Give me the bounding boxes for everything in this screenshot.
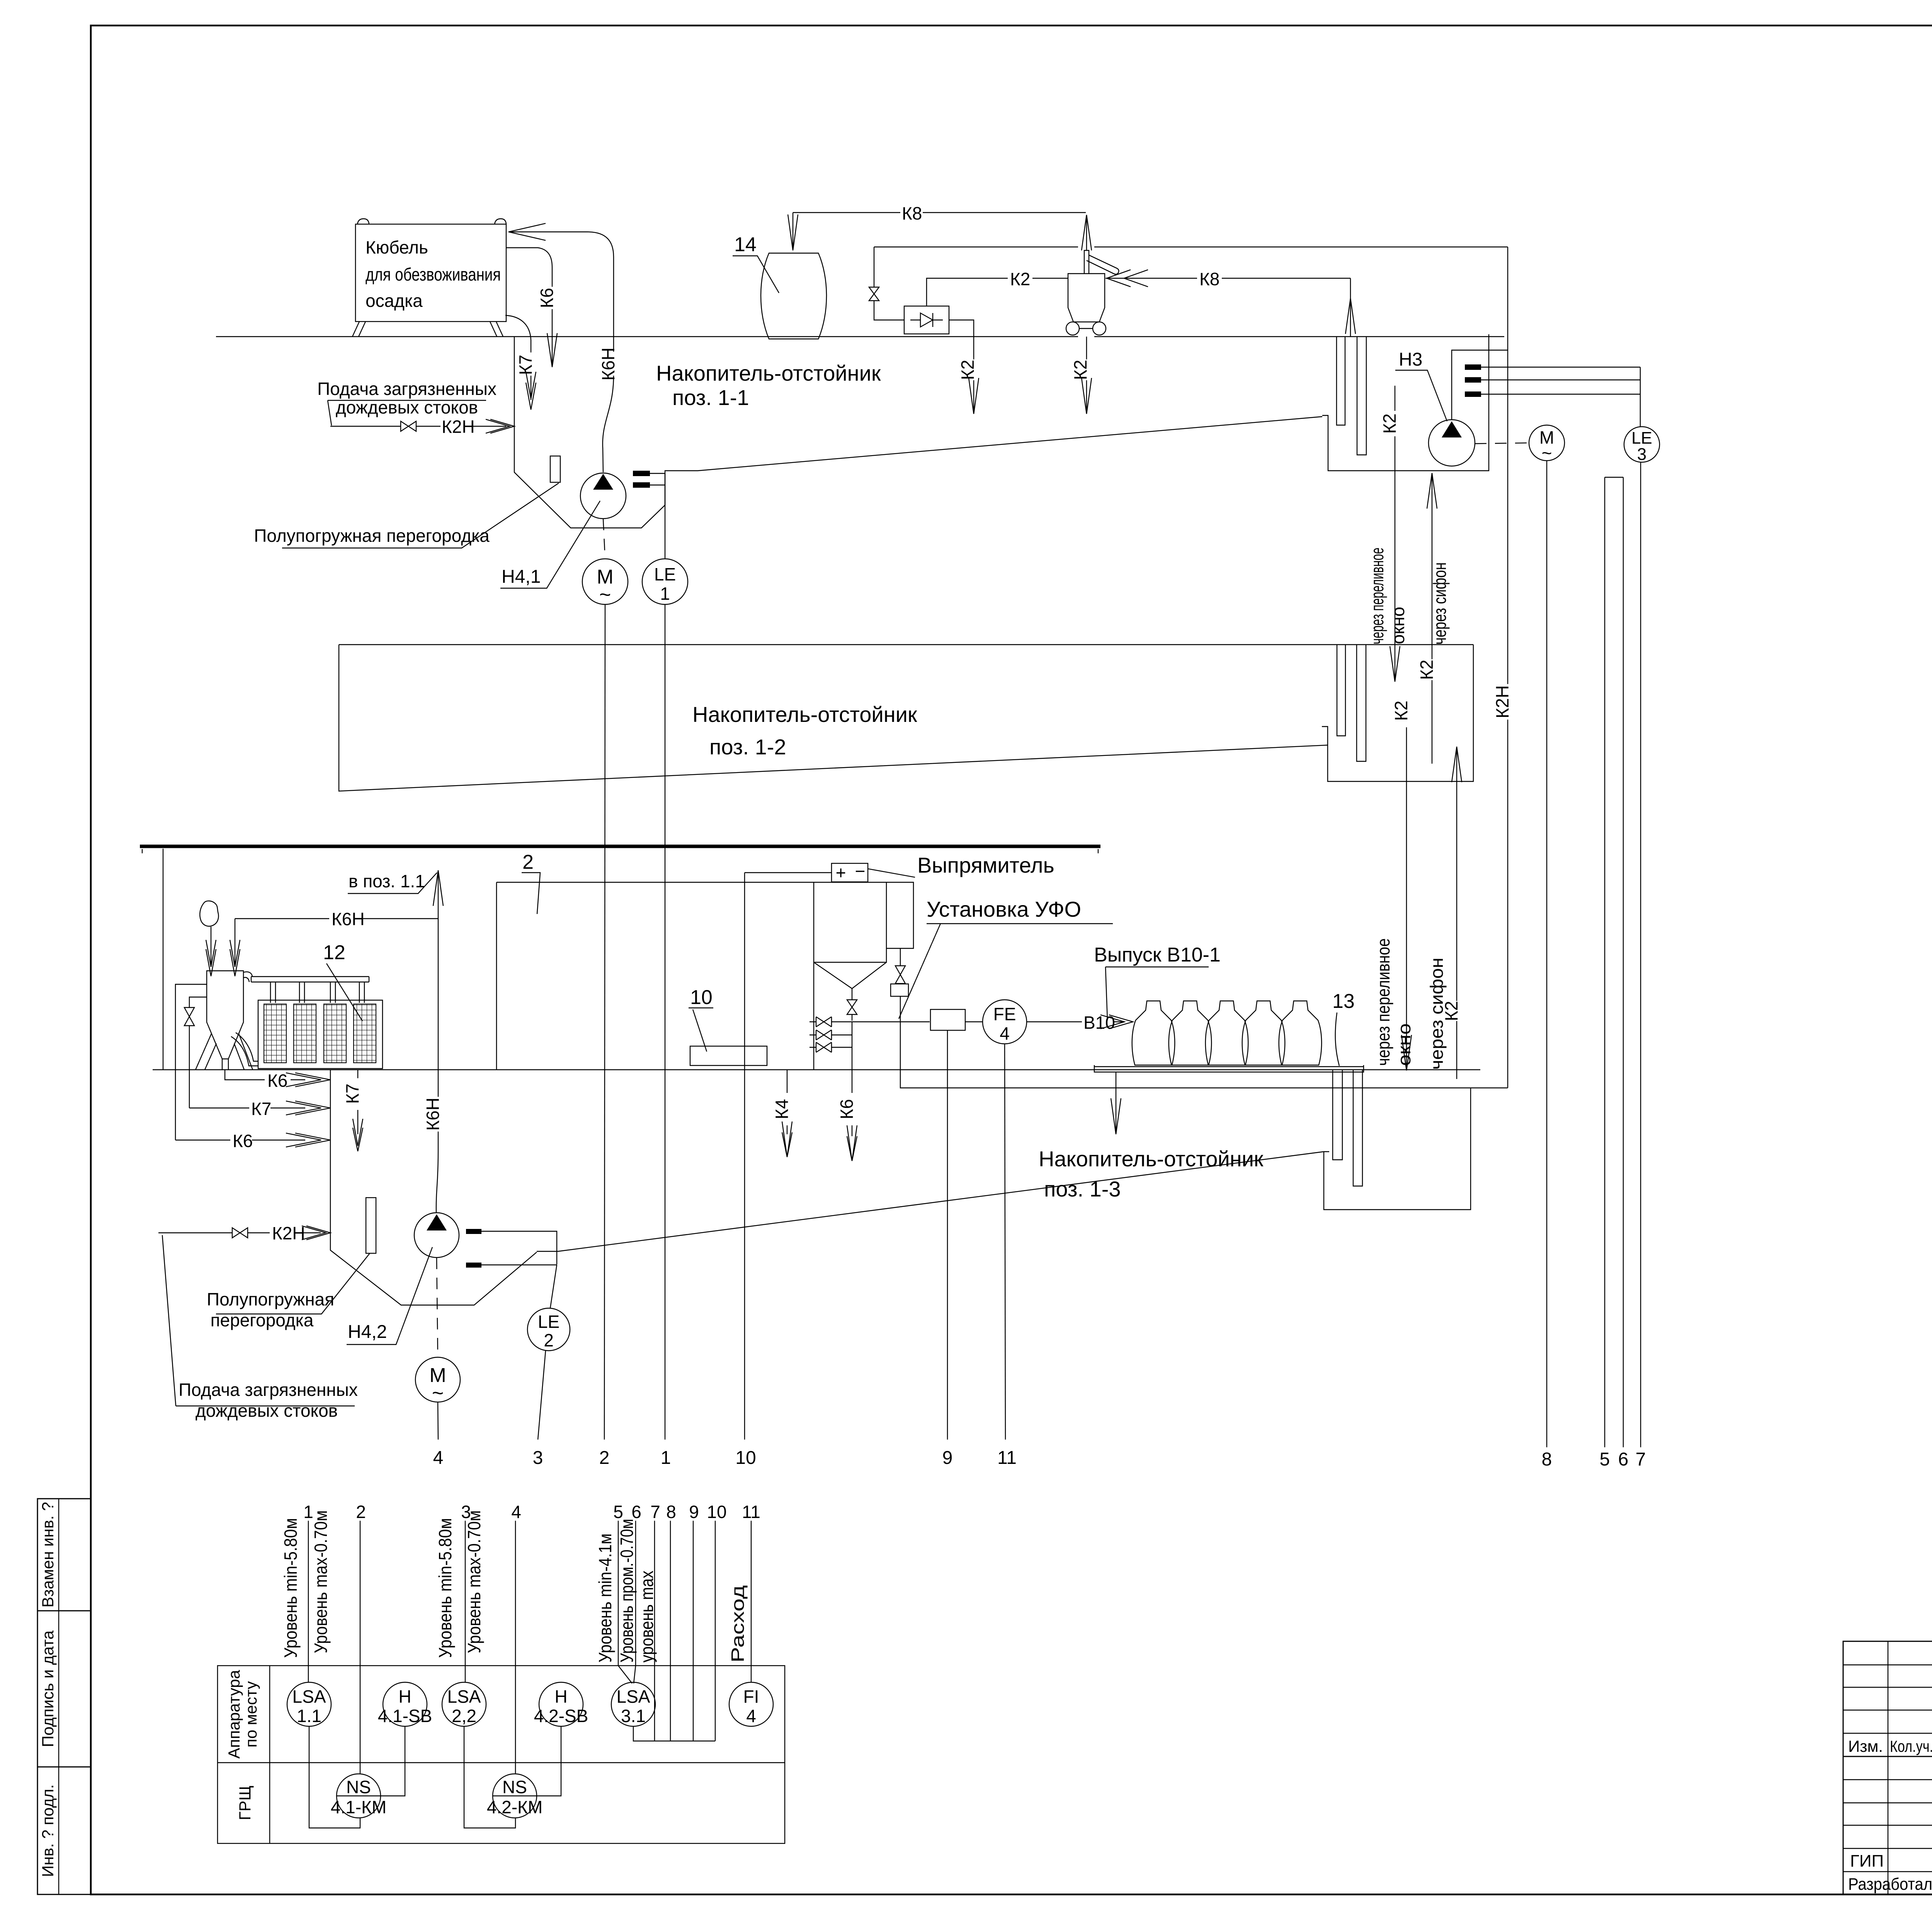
svg-text:К2: К2	[1070, 360, 1090, 380]
pointer arrow to tank 1-3	[1111, 1072, 1121, 1134]
svg-text:К8: К8	[902, 203, 922, 223]
svg-text:7: 7	[650, 1502, 660, 1522]
K2 drop line 2 (below trolley)	[1070, 337, 1092, 414]
roof slab (thick)	[140, 845, 1100, 848]
svg-text:3: 3	[1637, 445, 1646, 464]
svg-text:6: 6	[1618, 1449, 1629, 1470]
K7 down arrowheads	[526, 372, 536, 410]
riser from trolley mast with up arrow	[1086, 215, 1087, 250]
tank 1-1 outline (left wall, sump, sloped floor)	[514, 337, 1322, 528]
label H4,2	[347, 1247, 432, 1344]
instrument LSA 1.1	[287, 1682, 331, 1726]
svg-text:Полупогружная перегородка: Полупогружная перегородка	[254, 526, 490, 546]
chamber 2 walls	[497, 882, 886, 1070]
svg-text:К2Н: К2Н	[1492, 685, 1512, 718]
svg-text:−: −	[855, 861, 866, 881]
svg-text:Уровень mах-0.70м: Уровень mах-0.70м	[464, 1510, 484, 1653]
svg-text:12: 12	[323, 941, 345, 964]
stub line 3 into LSA 2,2	[465, 1521, 466, 1682]
pipe from hopper bottom to frame	[231, 1033, 258, 1066]
label outfall B10-1	[1094, 944, 1221, 1020]
sack symbol above hopper	[200, 901, 218, 926]
svg-text:1: 1	[661, 1448, 671, 1468]
stub lines 5,6 converge into LSA 3.1	[618, 1521, 636, 1683]
instrument LSA 2,2	[442, 1682, 486, 1726]
svg-text:4: 4	[746, 1706, 756, 1726]
lower overflow K2 line (tank 1-2 to tank 1-3)	[1391, 701, 1412, 1070]
svg-text:К6Н: К6Н	[332, 909, 365, 929]
label: supply of polluted storm water (upper)	[317, 379, 497, 425]
svg-text:Накопитель-отстойник: Накопитель-отстойник	[692, 702, 917, 727]
building left wall	[163, 849, 163, 1070]
svg-text:Аппаратура: Аппаратура	[225, 1670, 243, 1759]
signal line 11	[1005, 1044, 1005, 1440]
posts	[270, 982, 364, 1003]
svg-text:Накопитель-отстойник: Накопитель-отстойник	[1039, 1147, 1264, 1171]
discharge bars of pump H4,1	[633, 471, 665, 559]
tank 1-2 outline	[339, 645, 1473, 791]
svg-text:К7: К7	[342, 1084, 362, 1104]
signal line 8 (M of H3 down)	[1546, 461, 1547, 1447]
svg-text:окно: окно	[1388, 607, 1408, 644]
label: to pos. 1.1 with riser arrow	[348, 870, 443, 1070]
upper overflow K2 line (tank H3 to tank 1-2)	[1379, 386, 1400, 682]
stub line 2 into NS 4.1-KM	[360, 1521, 361, 1774]
arrowhead into Kubel	[509, 223, 546, 240]
electrocoagulator unit 12	[231, 972, 383, 1069]
title block left-table verticals	[1888, 1641, 1888, 1894]
svg-text:Инв. ? подл.: Инв. ? подл.	[39, 1784, 57, 1877]
svg-text:Кюбель: Кюбель	[366, 237, 428, 257]
signal line 3 (LE2 down)	[538, 1351, 546, 1440]
element 14 (barrel)	[733, 233, 827, 339]
K6 drop line	[837, 1070, 857, 1161]
K4 drop line	[772, 1070, 792, 1157]
busbar	[251, 977, 369, 982]
level sensor LE3	[1624, 427, 1660, 464]
svg-text:2: 2	[356, 1502, 366, 1522]
svg-text:10: 10	[707, 1502, 726, 1522]
signal line 1 (LE1 down to row)	[665, 604, 665, 1440]
arrow from sack into hopper	[206, 927, 216, 976]
hanging baffle pipes	[1337, 337, 1345, 425]
svg-text:ГИП: ГИП	[1850, 1852, 1884, 1870]
ground line of tank 1-1 row	[216, 336, 1504, 337]
svg-text:Подача загрязненных: Подача загрязненных	[179, 1380, 358, 1400]
pipe from hopper to busbar	[243, 972, 252, 982]
instrument H 4.2-SB	[534, 1682, 588, 1726]
valve on K7 feed	[184, 1008, 194, 1026]
wire H4.1-SB to NS4.1	[381, 1726, 405, 1796]
stub line 11 into FI 4	[751, 1521, 752, 1682]
svg-text:поз. 1-3: поз. 1-3	[1044, 1177, 1121, 1201]
svg-text:Установка УФО: Установка УФО	[927, 897, 1081, 921]
semi-submerged partition (lower tank)	[366, 1198, 376, 1253]
title block	[1843, 1641, 1932, 1895]
pump H4,2	[414, 1213, 459, 1258]
discharge bars of pump H4,2	[466, 1229, 557, 1268]
stub lines 7,8,9,10 to connector	[655, 1521, 715, 1741]
rectifier box	[832, 861, 915, 883]
svg-text:дождевых стоков: дождевых стоков	[196, 1401, 338, 1421]
svg-text:К2: К2	[1010, 269, 1030, 289]
svg-text:2: 2	[599, 1448, 610, 1468]
bags on tray (element 13)	[1094, 1001, 1364, 1072]
svg-text:К2: К2	[1417, 660, 1437, 680]
signal line 4 (M of H4,2 down)	[438, 1402, 438, 1440]
level sensor LE1	[642, 559, 688, 604]
motor M of pump H4,2	[415, 1258, 460, 1404]
svg-text:уровень mах: уровень mах	[637, 1571, 657, 1663]
hanging baffles of tank 1-3	[1333, 1070, 1342, 1160]
svg-text:4.1-SВ: 4.1-SВ	[378, 1706, 432, 1726]
stub line 4 into NS 4.2-KM	[515, 1521, 516, 1774]
hopper (reagent tank)	[196, 971, 253, 1070]
label: semi-submerged partition (lower)	[207, 1253, 370, 1330]
svg-text:4.1-КМ: 4.1-КМ	[331, 1797, 386, 1817]
signal line 2 (M of H4,1 down to row)	[604, 604, 605, 1440]
svg-text:14: 14	[734, 233, 757, 256]
diode box (non-return device)	[904, 306, 949, 334]
rotated signal descriptions	[281, 1510, 748, 1663]
svg-text:поз. 1-2: поз. 1-2	[709, 735, 786, 759]
valve on vertical at 2262	[869, 247, 904, 320]
svg-text:4: 4	[511, 1502, 521, 1522]
svg-text:в поз. 1.1: в поз. 1.1	[349, 871, 425, 891]
svg-text:осадка: осадка	[366, 291, 423, 311]
svg-text:К2: К2	[957, 360, 978, 380]
K6H riser below floor down to pump H4,2	[423, 1070, 443, 1212]
svg-text:~: ~	[599, 584, 611, 606]
roof slab end ticks	[142, 849, 1098, 853]
svg-text:9: 9	[689, 1502, 699, 1522]
motor M of pump H3	[1475, 425, 1565, 463]
svg-text:Накопитель-отстойник: Накопитель-отстойник	[656, 361, 881, 385]
UFO unit (UV disinfection)	[814, 882, 1508, 1088]
K7 drop line below floor	[342, 1070, 363, 1151]
pump H4,1	[580, 473, 626, 519]
upper siphon K2 line (tank 1-2 up to tank H3)	[1417, 473, 1437, 764]
svg-text:Уровень mах-0.70м: Уровень mах-0.70м	[311, 1510, 331, 1653]
svg-text:Взамен инв. ?: Взамен инв. ?	[39, 1502, 57, 1607]
svg-text:4: 4	[433, 1448, 444, 1468]
svg-text:К6Н: К6Н	[598, 347, 618, 381]
svg-text:К6: К6	[267, 1070, 287, 1091]
svg-text:~: ~	[1542, 443, 1552, 463]
svg-text:LE: LE	[654, 564, 676, 584]
tank 1-2 top line	[339, 644, 1473, 645]
starter NS 4.2-KM	[487, 1774, 543, 1818]
line number labels row 1	[433, 1448, 1646, 1470]
svg-text:4.2-КМ: 4.2-КМ	[487, 1797, 543, 1817]
hopper feed pipes at left	[175, 984, 207, 1140]
svg-text:11: 11	[742, 1502, 760, 1522]
connector from LSA 3.1 to lines 7-10	[633, 1726, 715, 1741]
svg-text:Уровень min-5.80м: Уровень min-5.80м	[281, 1518, 301, 1658]
svg-text:LSA: LSA	[447, 1687, 481, 1707]
svg-text:Кол.уч.: Кол.уч.	[1890, 1737, 1932, 1755]
svg-text:1.1: 1.1	[297, 1706, 321, 1726]
starter NS 4.1-KM	[331, 1774, 386, 1818]
svg-text:7: 7	[1636, 1449, 1646, 1470]
svg-text:К6: К6	[837, 1099, 857, 1119]
svg-text:13: 13	[1332, 990, 1355, 1013]
lower siphon K2 line (tank 1-3 up to tank 1-2)	[1441, 747, 1462, 1079]
tank 1-2 hanging baffles	[1337, 645, 1366, 761]
inlet K2H valve and arrow (lower tank)	[158, 1223, 330, 1243]
svg-text:4: 4	[1000, 1023, 1010, 1043]
svg-text:для обезвоживания: для обезвоживания	[366, 264, 501, 284]
svg-text:К6: К6	[537, 288, 557, 308]
flow element FE4	[965, 1000, 1027, 1044]
svg-text:через переливное: через переливное	[1367, 548, 1387, 644]
svg-text:К2: К2	[1391, 701, 1411, 721]
pipe K7 from Kubel bottom with down arrow	[505, 315, 531, 400]
building floor	[153, 1069, 1480, 1070]
instrument FI 4	[729, 1682, 773, 1726]
B10 discharge line to bags	[1027, 1013, 1133, 1033]
svg-text:8: 8	[1542, 1449, 1552, 1470]
svg-text:10: 10	[735, 1448, 756, 1468]
svg-text:Выпрямитель: Выпрямитель	[917, 853, 1054, 877]
label H4,1	[500, 501, 600, 588]
svg-text:1: 1	[660, 584, 670, 604]
svg-text:NS: NS	[346, 1777, 371, 1797]
svg-text:~: ~	[432, 1382, 444, 1404]
K6H header line to riser	[235, 918, 438, 919]
frame	[258, 1000, 383, 1069]
flowmeter box	[930, 1009, 965, 1030]
K6 down arrowhead	[547, 333, 557, 367]
K7 line below floor with chevron arrow	[189, 1099, 330, 1119]
wire LSA1.1 to NS4.1 bottom	[309, 1726, 360, 1828]
svg-text:через переливное: через переливное	[1373, 938, 1393, 1066]
svg-text:Подача загрязненных: Подача загрязненных	[317, 379, 497, 399]
instrument LSA 3.1	[611, 1682, 655, 1726]
signal line 7 (LE3 down)	[1640, 462, 1641, 1447]
hatched electrode plates	[264, 1004, 376, 1063]
svg-text:Расход: Расход	[728, 1585, 748, 1663]
wire H4.2-SB to NS4.2	[537, 1726, 561, 1796]
element 10 rectangle	[690, 1046, 767, 1065]
arrow from K6H header into hopper	[230, 919, 240, 976]
svg-text:перегородка: перегородка	[211, 1310, 314, 1330]
label H3	[1395, 349, 1447, 421]
svg-text:окно: окно	[1394, 1023, 1414, 1066]
svg-text:Н3: Н3	[1399, 349, 1422, 370]
svg-text:5: 5	[1600, 1449, 1610, 1470]
K6 lower line below floor with chevron arrow	[175, 1131, 330, 1151]
label 2	[522, 851, 540, 914]
right column	[886, 882, 913, 948]
inlet K2H valve and arrow (tank 1-1)	[330, 417, 514, 437]
level sensor LE2	[527, 1265, 570, 1351]
svg-text:К6Н: К6Н	[423, 1098, 443, 1131]
label 13	[1332, 990, 1355, 1066]
svg-text:через сифон: через сифон	[1427, 958, 1447, 1070]
wire LSA2,2 to NS4.2 bottom	[464, 1726, 515, 1828]
svg-text:Н4,1: Н4,1	[502, 567, 541, 587]
K2 drop line 1 (from diode box)	[949, 320, 979, 414]
label 10	[689, 986, 713, 1052]
svg-text:11: 11	[997, 1448, 1017, 1468]
table stub number labels row 2	[303, 1502, 760, 1522]
svg-text:Выпуск В10-1: Выпуск В10-1	[1094, 944, 1221, 966]
svg-text:Н: Н	[554, 1687, 567, 1707]
svg-text:Уровень min-4.1м: Уровень min-4.1м	[595, 1533, 615, 1663]
Kubel box (sludge dewatering container)	[352, 219, 506, 337]
svg-text:К7: К7	[251, 1099, 271, 1119]
K2 line from diode box into trolley	[927, 269, 1068, 306]
svg-text:К6: К6	[233, 1131, 253, 1151]
svg-text:+: +	[836, 863, 846, 883]
svg-text:К2Н: К2Н	[442, 417, 475, 437]
svg-text:Уровень пром.-0.70м: Уровень пром.-0.70м	[617, 1519, 637, 1663]
lower tank outline	[330, 1070, 1324, 1305]
pump H3	[1429, 420, 1475, 466]
manifold of three valves	[810, 1017, 930, 1070]
svg-text:2,2: 2,2	[452, 1706, 476, 1726]
svg-text:LSA: LSA	[293, 1687, 326, 1707]
svg-text:поз. 1-1: поз. 1-1	[672, 385, 749, 410]
svg-text:8: 8	[666, 1502, 676, 1522]
pipe K6H into Kubel (from riser)	[509, 232, 614, 352]
tank 1-3 sump	[1324, 1070, 1471, 1210]
svg-text:3.1: 3.1	[621, 1706, 646, 1726]
motor M of pump H4,1	[582, 519, 628, 606]
LE3 guide pipes (lines 5 and 6)	[1605, 477, 1623, 1447]
mast and handle	[1084, 250, 1089, 274]
instrument H 4.1-SB	[378, 1682, 432, 1726]
svg-text:10: 10	[690, 986, 713, 1009]
svg-text:через сифон: через сифон	[1430, 562, 1450, 645]
signal line 9	[947, 1030, 948, 1440]
tank H3 sump (right end of tank 1-1)	[1322, 334, 1489, 471]
svg-text:2: 2	[544, 1330, 554, 1350]
svg-text:FE: FE	[993, 1004, 1016, 1024]
label 12	[323, 941, 362, 1021]
label: supply of polluted storm water (lower)	[162, 1235, 358, 1421]
title block left-table horizontals	[1843, 1664, 1932, 1665]
svg-text:Подпись и дата: Подпись и дата	[39, 1630, 57, 1747]
svg-text:К8: К8	[1199, 269, 1219, 289]
svg-text:3: 3	[533, 1448, 543, 1468]
svg-text:Уровень min-5.80м: Уровень min-5.80м	[435, 1518, 455, 1658]
svg-text:Изм.: Изм.	[1848, 1737, 1883, 1755]
svg-text:К2: К2	[1379, 414, 1400, 434]
label: semi-submerged partition (tank 1-1)	[254, 483, 559, 548]
svg-text:Разработал: Разработал	[1848, 1875, 1932, 1894]
pipe K6 from Kubel with down arrow	[506, 248, 552, 365]
svg-text:4.2-SВ: 4.2-SВ	[534, 1706, 588, 1726]
svg-text:К2Н: К2Н	[272, 1223, 305, 1243]
svg-text:9: 9	[942, 1448, 953, 1468]
K6 / K7 / K6 lines below floor	[225, 1070, 330, 1091]
stub line 1 into LSA 1.1	[308, 1521, 309, 1682]
svg-text:Н4,2: Н4,2	[348, 1322, 387, 1342]
svg-text:Н: Н	[398, 1687, 411, 1707]
line 10 riser (rectifier DC feed)	[745, 873, 832, 1440]
label UFO unit	[899, 897, 1113, 1019]
svg-text:2: 2	[522, 851, 534, 873]
trolley hopper (element on wheels)	[1066, 250, 1119, 335]
svg-text:LE: LE	[538, 1312, 560, 1332]
pump H3 discharge riser to K2H downpipe	[1452, 350, 1508, 420]
svg-text:LSA: LSA	[617, 1687, 650, 1707]
svg-text:по месту: по месту	[242, 1681, 260, 1748]
svg-text:NS: NS	[502, 1777, 527, 1797]
svg-text:Полупогружная: Полупогружная	[207, 1289, 334, 1309]
svg-text:FI: FI	[743, 1687, 759, 1707]
K2H downpipe (right)	[1492, 247, 1512, 1088]
discharge bars with sensor lines to LE3	[1465, 364, 1640, 427]
pipe K6H lower part to pump H4,1	[603, 376, 614, 472]
svg-text:ГРЩ: ГРЩ	[236, 1785, 254, 1820]
svg-text:К4: К4	[772, 1099, 792, 1119]
left attachment strip	[37, 1499, 91, 1894]
secondary line y=639 (from valve/diode circuit to K2H downpipe)	[874, 247, 1508, 247]
K8 line with arrow into barrel	[788, 203, 1092, 250]
semi-submerged partition (tank 1-1)	[550, 456, 560, 482]
K8 line (right) into trolley, riser to ground	[1105, 269, 1355, 337]
